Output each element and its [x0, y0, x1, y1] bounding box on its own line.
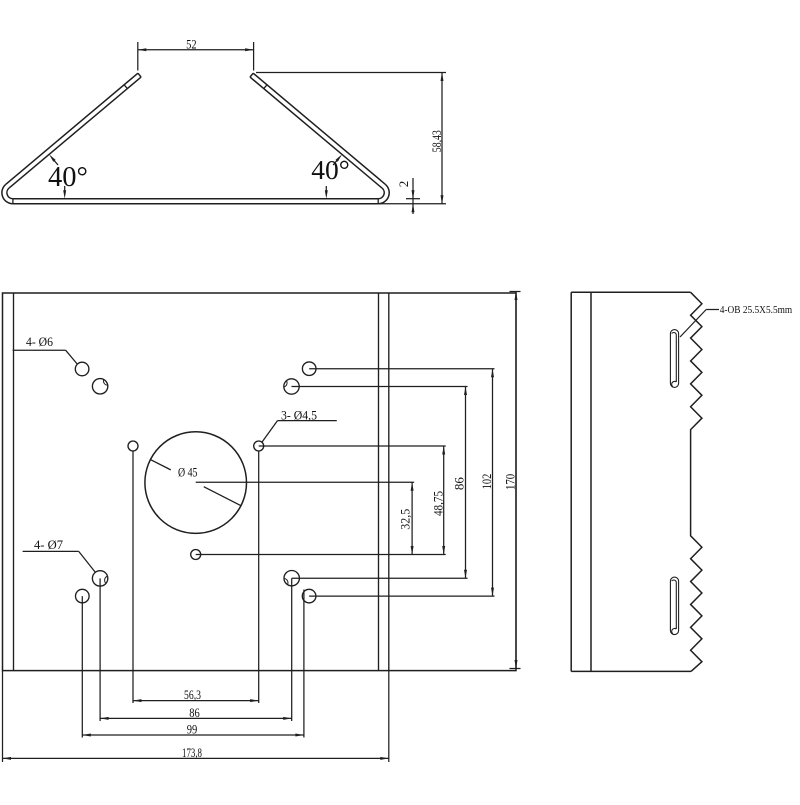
extension line bend line down	[388, 671, 390, 762]
top view: left bend inner arc	[7, 188, 13, 199]
hole D7 bottom-left (threaded)	[92, 571, 107, 586]
extension line from D4.5 right down	[258, 451, 260, 703]
side view left edge	[570, 292, 572, 671]
dimension 173,8 line	[3, 757, 389, 759]
top view: right flange inner edge	[250, 77, 382, 188]
extension line from D6 bottom-right down	[303, 590, 305, 738]
hole D6 top-right	[302, 362, 316, 376]
dimension 48,75 arrows	[442, 446, 445, 455]
dimension 58,43 line	[441, 73, 443, 204]
svg-text:52: 52	[186, 36, 197, 51]
svg-text:99: 99	[187, 722, 198, 737]
dimension 56,3 arrows	[133, 699, 142, 702]
side view top edge	[571, 291, 690, 293]
svg-text:40°: 40°	[311, 154, 350, 185]
hole D7 bottom-right thread arc	[284, 578, 288, 584]
dimension 32,5 line	[411, 482, 413, 554]
dimension 102 arrows	[491, 369, 494, 378]
dimension 99 arrows	[82, 734, 91, 737]
label 4-OB leader diagonal	[680, 310, 706, 338]
dimension 52 arrow right	[245, 48, 254, 51]
extension line from D6 bottom-right to 102 dim	[309, 595, 494, 597]
dimension 173,8 arrows	[3, 757, 12, 760]
dimension 86 vertical line	[465, 387, 467, 579]
hole D7 top-left thread arc	[103, 380, 107, 386]
extension line from D4.5 left down	[132, 451, 134, 703]
svg-text:86: 86	[189, 705, 200, 720]
svg-text:2: 2	[396, 181, 411, 188]
top view: right flange bend tangent tick	[264, 85, 267, 89]
dimension 102 line	[492, 369, 494, 596]
top view: base top surface line	[13, 198, 378, 200]
top view: base bottom surface line	[13, 203, 378, 205]
dimension 86 bottom arrows	[100, 717, 109, 720]
dimension 170 extension tick top	[510, 291, 521, 293]
dimension 52 extension line left	[137, 42, 139, 71]
svg-text:170: 170	[503, 474, 518, 490]
extension line from D4.5 bottom to 48,75/32,5 dims	[196, 554, 446, 556]
hole D6 bottom-right	[302, 589, 316, 603]
extension line from D6 bottom-left down	[81, 596, 83, 737]
top view: left bend tangent tick	[12, 199, 14, 204]
label 4-D7 leader	[79, 551, 96, 572]
dimension 2 tick at top surface	[406, 198, 420, 200]
circle D45 diameter line lower segment	[204, 487, 241, 506]
hole D4.5 bottom	[191, 550, 201, 560]
dimension 52 extension line right	[253, 42, 255, 71]
left 40deg arrow on flange	[49, 154, 56, 161]
extension line from D45 center to 32,5 dim	[196, 481, 414, 483]
side view inner line	[590, 292, 592, 671]
extension line from D7 top-right to 86 dim	[292, 386, 468, 388]
side view slot bottom (oblong 25.5x5.5)	[670, 577, 678, 635]
extension line from D6 top-right to 102 dim	[309, 368, 494, 370]
side view serrated right edge	[691, 292, 702, 671]
extension line from D4.5 right to 48,75 dim	[259, 445, 446, 447]
front view bend line 1	[378, 293, 380, 671]
dimension 58,43 arrow bottom	[441, 195, 444, 204]
label 4-OB leader horizontal	[706, 309, 719, 311]
right 40deg arrow tail on flange	[333, 160, 337, 165]
dimension 56,3 line	[133, 700, 259, 702]
label 3-D4,5 underline	[278, 420, 337, 422]
svg-text:58,43: 58,43	[429, 130, 444, 152]
dimension 99 line	[82, 734, 304, 736]
svg-text:102: 102	[479, 474, 494, 490]
hole D7 top-right (threaded)	[284, 379, 299, 394]
svg-text:Ø 45: Ø 45	[178, 465, 198, 480]
top view: right bend tangent tick	[377, 199, 379, 204]
top view: right flange end cap	[250, 73, 253, 77]
dimension 170 line	[515, 292, 517, 669]
dimension 58,43 extension line bottom (base line extended)	[378, 203, 446, 205]
dimension 48,75 line	[443, 446, 445, 555]
dimension 58,43 extension line top	[256, 72, 446, 74]
top view: right flange outer edge (40deg)	[253, 73, 385, 184]
top view: left flange outer edge (40deg)	[6, 73, 138, 184]
top view: left bend outer arc	[2, 184, 13, 203]
extension line from D7 bottom-right down	[291, 578, 293, 721]
dimension 2 arrow up	[412, 204, 415, 213]
dimension 86 bottom line	[100, 717, 292, 719]
circle D45	[145, 432, 247, 534]
front view left hem line	[13, 293, 15, 671]
label 3-D4,5 leader	[262, 421, 278, 443]
right 40deg arrow tail vertical	[325, 186, 327, 191]
extension line from D7 bottom-right to 86 dim	[292, 577, 468, 579]
hole D7 top-right thread arc	[284, 381, 287, 387]
svg-text:86: 86	[451, 477, 466, 491]
dimension 2 leader vertical	[412, 178, 414, 214]
hole D4.5 right	[254, 441, 264, 451]
hole D7 bottom-right (threaded)	[284, 571, 299, 586]
label 4-D7 underline	[23, 550, 79, 552]
circle D45 diameter line upper segment	[150, 460, 170, 470]
svg-text:48,75: 48,75	[430, 491, 445, 516]
top view: right bend inner arc	[378, 188, 384, 199]
dimension 170 extension tick bottom	[510, 668, 521, 670]
hole D7 bottom-left thread arc	[105, 576, 108, 583]
hole D6 bottom-left	[76, 589, 90, 603]
left 40deg arrow tail vertical	[64, 186, 66, 191]
svg-text:173,8: 173,8	[182, 745, 202, 760]
svg-text:56,3: 56,3	[184, 687, 201, 702]
left 40deg arrow down to base	[63, 190, 66, 199]
svg-text:40°: 40°	[48, 162, 88, 193]
svg-text:32,5: 32,5	[398, 509, 413, 530]
extension line from D7 bottom-left down	[99, 578, 101, 721]
label 4-D6 leader	[66, 350, 78, 364]
top view: left flange end cap	[138, 73, 141, 77]
side view bottom edge	[571, 670, 691, 672]
left 40deg arrow tail on flange	[54, 160, 58, 165]
svg-text:4-OB 25.5X5.5mm: 4-OB 25.5X5.5mm	[720, 304, 793, 316]
dimension 32,5 arrows	[411, 482, 414, 491]
dimension 2 arrow down	[412, 190, 415, 199]
front view plate outline	[3, 293, 517, 671]
extension line plate left edge down	[2, 671, 4, 762]
svg-text:4- Ø6: 4- Ø6	[26, 334, 53, 349]
hole D4.5 left	[128, 441, 138, 451]
dimension 52 arrow left	[138, 48, 147, 51]
side view slot top (oblong 25.5x5.5)	[670, 330, 678, 388]
hole D6 top-left	[75, 362, 89, 376]
right 40deg arrow down to base	[325, 190, 328, 199]
dimension 52 line	[138, 49, 254, 51]
svg-text:4- Ø7: 4- Ø7	[34, 537, 63, 552]
dimension 170 arrows	[515, 292, 518, 301]
hole D7 top-left (threaded)	[92, 379, 107, 394]
top view: left flange bend tangent tick	[124, 85, 127, 89]
top view: left flange inner edge	[9, 77, 141, 188]
label 4-D6 underline	[13, 349, 66, 351]
dimension 58,43 arrow top	[441, 73, 444, 82]
top view: right bend outer arc	[378, 184, 389, 203]
right 40deg arrow on flange	[335, 154, 342, 161]
front view bend line 2	[388, 293, 390, 671]
dimension 86 vertical arrows	[464, 387, 467, 396]
